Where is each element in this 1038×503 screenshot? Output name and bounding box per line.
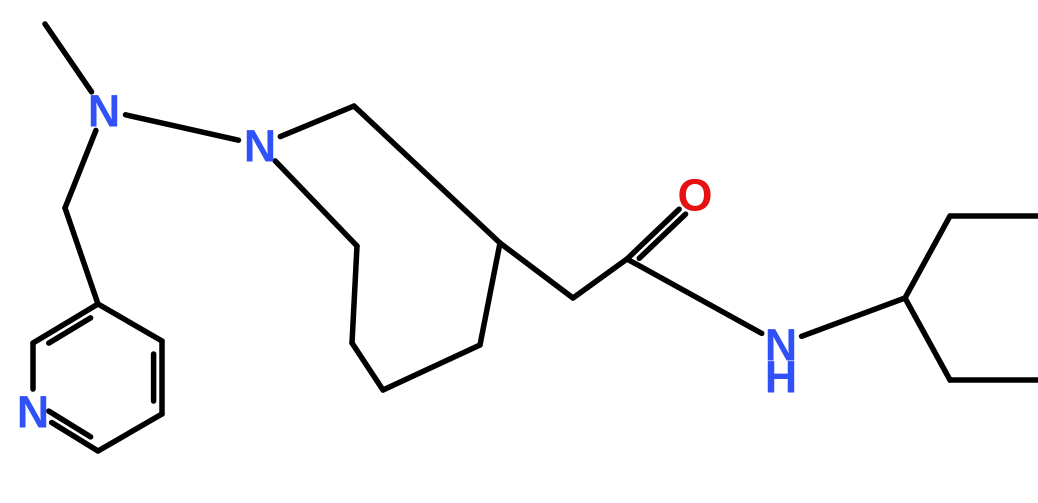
svg-text:N: N	[17, 387, 50, 438]
svg-text:N: N	[88, 86, 121, 137]
svg-text:H: H	[765, 352, 798, 403]
svg-text:N: N	[244, 121, 277, 172]
svg-text:O: O	[677, 170, 712, 221]
